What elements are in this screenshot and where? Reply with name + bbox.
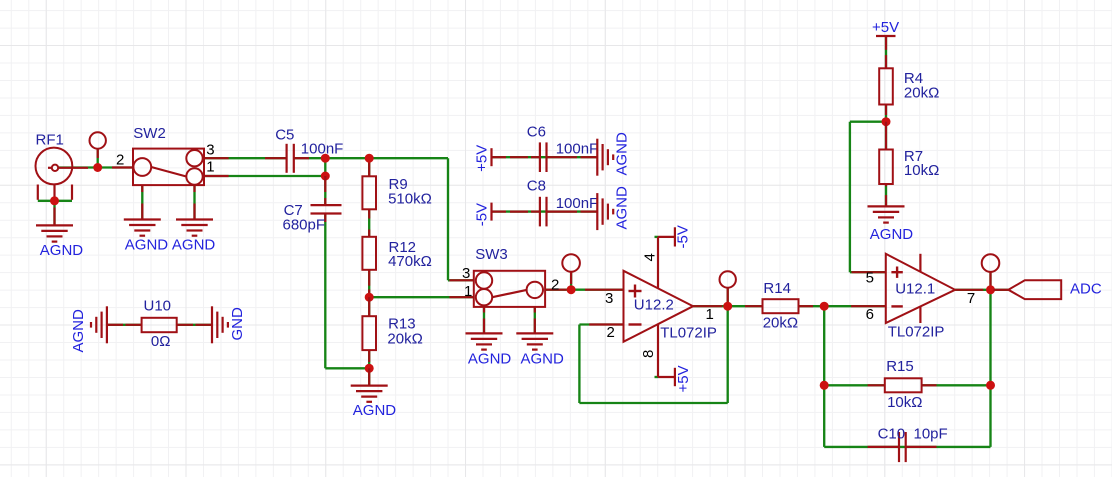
ground AGND at C8 (rotated): [597, 193, 613, 230]
wire node to C7 top: [324, 176, 326, 205]
wire port stub above node at RF1 input: [97, 149, 99, 168]
ground AGND at U10 left (rotated): [91, 306, 107, 343]
label AGND at U10 left: [70, 309, 87, 353]
pin number 1 of U12.2: [706, 306, 714, 323]
ground AGND at SW3 right: [516, 333, 553, 349]
svg-text:5: 5: [866, 269, 874, 286]
label AGND at SW3 right: [521, 351, 565, 368]
wire node to R13 top: [368, 297, 370, 316]
value 510k of R9: [388, 191, 432, 208]
switch SW3: [449, 271, 566, 334]
wire port stub at SW3 output node: [570, 272, 572, 290]
wire feedback loop U12.2 output to pin 2: [579, 306, 727, 403]
wire divider node to SW3 pin 1: [369, 296, 474, 298]
port circle at SW3 output node: [562, 254, 580, 284]
svg-text:C5: C5: [275, 126, 294, 143]
pin number 2 of U12.2: [607, 324, 615, 341]
wire port stub at output node: [989, 272, 991, 289]
node RF1 input junction: [93, 163, 102, 172]
value 470k of R12: [388, 253, 432, 270]
svg-text:+5V: +5V: [872, 19, 899, 36]
wire U12.1 output to ADC port: [955, 289, 1008, 291]
svg-text:-5V: -5V: [675, 225, 692, 248]
wire +5V to R4: [885, 36, 887, 69]
svg-text:C10: C10: [878, 425, 906, 442]
ground AGND at RF1: [36, 208, 73, 242]
label AGND at C8: [614, 186, 631, 230]
wire SW2 pin 4 to AGND: [141, 185, 143, 219]
label R15: [886, 358, 914, 375]
wire U12.2 pin 2 feedback: [579, 323, 623, 325]
label AGND at R13: [353, 402, 397, 419]
port circle at RF1 input node: [90, 132, 106, 158]
pin number 5 of U12.1: [866, 269, 874, 286]
value 100nF of C5: [301, 140, 344, 157]
op-amp U12.2: [585, 237, 693, 377]
port circle at U12.1 output node: [982, 254, 1000, 286]
pin number 6 of U12.1: [866, 306, 874, 323]
wire AGND to U10: [107, 324, 142, 326]
label AGND at SW2 pin 5: [172, 236, 216, 253]
ground AGND at R7: [868, 206, 905, 222]
wire U10 to GND: [177, 324, 212, 326]
svg-text:C6: C6: [527, 123, 546, 140]
wire tick at pin 4 rail: [655, 236, 659, 238]
label C8: [527, 178, 546, 195]
label R13: [388, 316, 416, 333]
value 20k of R4: [904, 84, 939, 101]
capacitor C5: [265, 144, 309, 173]
svg-text:510kΩ: 510kΩ: [388, 191, 432, 208]
resistor R4: [879, 55, 893, 115]
wire port stub at U12.2 output node: [727, 288, 729, 307]
wire C10 feedback loop: [824, 385, 990, 447]
svg-text:2: 2: [116, 151, 124, 168]
wire divider node to U12.1 pin 5: [850, 122, 886, 273]
resistor R9: [362, 158, 376, 237]
wire -5V to C8 to AGND: [491, 210, 597, 212]
wire tick at pin 8 rail: [655, 376, 659, 378]
port ADC: [994, 280, 1062, 299]
pin number 2 of SW2: [116, 151, 124, 168]
wire U12.2 output to R14: [693, 305, 762, 307]
label +5V at C6: [473, 145, 490, 172]
node feedback left: [820, 381, 829, 390]
svg-text:10kΩ: 10kΩ: [887, 394, 922, 411]
pin number 3 of U12.2: [605, 290, 613, 307]
label C5: [275, 126, 294, 143]
label SW2: [133, 125, 166, 142]
wire RF1 to SW2 pin 2: [58, 166, 133, 168]
node feedback right: [986, 381, 995, 390]
wire output node down to feedback: [989, 290, 991, 386]
svg-text:-5V: -5V: [473, 203, 490, 226]
label C10: [878, 425, 906, 442]
svg-text:470kΩ: 470kΩ: [388, 253, 432, 270]
svg-text:6: 6: [866, 306, 874, 323]
svg-text:3: 3: [462, 265, 470, 282]
wire +5V to C6 to AGND: [491, 156, 597, 158]
svg-text:3: 3: [206, 141, 214, 158]
value 20k of R14: [763, 315, 798, 332]
label AGND at SW3 left: [468, 351, 512, 368]
svg-text:4: 4: [641, 253, 658, 261]
svg-text:C8: C8: [527, 178, 546, 195]
svg-text:0Ω: 0Ω: [151, 333, 171, 350]
label C6: [527, 123, 546, 140]
svg-text:AGND: AGND: [70, 309, 87, 353]
wire R9 bottom to R12 top: [368, 209, 370, 237]
pin number 2 of SW3: [551, 276, 559, 293]
label AGND at RF1: [40, 242, 84, 259]
value 100nF of C8: [556, 195, 599, 212]
label SW3: [475, 246, 508, 263]
pin number 1 of SW3: [464, 283, 472, 300]
svg-text:2: 2: [607, 324, 615, 341]
capacitor C8: [510, 197, 597, 227]
node U12.1 output junction: [986, 285, 995, 294]
wire C5 to node and riser to SW3 pin 3: [294, 158, 473, 280]
port circle at U12.2 output node: [720, 271, 736, 302]
wire R7 to AGND: [885, 184, 887, 206]
label -5V at U12.2 pin 4: [675, 225, 692, 248]
value 10pF of C10: [914, 425, 948, 442]
svg-text:20kΩ: 20kΩ: [387, 331, 422, 348]
node SW3 output junction: [567, 285, 576, 294]
label GND at U10 right: [229, 307, 246, 341]
svg-text:680pF: 680pF: [283, 216, 326, 233]
node U12.2 output junction: [723, 302, 732, 311]
svg-text:SW2: SW2: [133, 125, 166, 142]
value 20k of R13: [387, 331, 422, 348]
wire SW2 pin 3 to C5: [204, 157, 286, 159]
pin number 7 of U12.1: [967, 290, 975, 307]
pin number 1 of SW2: [206, 158, 214, 175]
svg-text:AGND: AGND: [353, 402, 397, 419]
svg-text:7: 7: [967, 290, 975, 307]
svg-text:RF1: RF1: [36, 131, 64, 148]
wire SW3 to AGND left: [483, 307, 485, 334]
wire R15 to output node: [922, 384, 991, 386]
svg-text:GND: GND: [229, 307, 246, 341]
value 680pF of C7: [283, 216, 326, 233]
resistor R15: [868, 378, 937, 392]
label AGND at SW2 pin 4: [125, 236, 169, 253]
capacitor C10: [868, 432, 937, 462]
node at R13 bottom: [365, 364, 374, 373]
svg-text:R14: R14: [763, 280, 791, 297]
label TL072IP of U12.2: [660, 324, 717, 341]
wire R13 bottom to node: [368, 350, 370, 368]
wire RF1 shield node down to AGND: [53, 201, 55, 226]
svg-text:AGND: AGND: [870, 226, 914, 243]
svg-text:10pF: 10pF: [914, 425, 948, 442]
wire U12.2 output pin stub: [693, 305, 722, 307]
wire node down to feedback network: [823, 306, 825, 385]
label AGND at C6: [614, 132, 631, 176]
label +5V at U12.2 pin 8: [675, 365, 692, 392]
power flag -5V at C8: [492, 203, 507, 221]
label R14: [763, 280, 791, 297]
ground GND at U10 right (rotated): [212, 306, 228, 343]
power flag +5V at C6: [492, 148, 507, 166]
wire SW3 pin 2 to U12.2 pin 3: [545, 289, 623, 291]
wire node to R9 top: [368, 158, 370, 176]
pin number 3 of SW3: [462, 265, 470, 282]
label R4: [904, 70, 923, 87]
node RF1 shield junction: [50, 196, 59, 205]
svg-text:AGND: AGND: [521, 351, 565, 368]
wire RF1 shield to ground: [38, 200, 72, 202]
ground AGND at C6 (rotated): [597, 139, 613, 176]
label R9: [389, 176, 408, 193]
wire between nodes at C5 output: [324, 158, 326, 176]
resistor U10 (0 ohm link): [107, 318, 212, 332]
wire SW2 pin 1 to node below C5: [204, 175, 325, 177]
resistor R12: [362, 237, 376, 297]
capacitor C7: [311, 176, 342, 222]
connector RF1 (BNC): [36, 148, 89, 201]
ground AGND at SW2 pin 4: [124, 220, 161, 236]
wire R4 to node: [885, 104, 887, 122]
svg-text:U10: U10: [144, 298, 172, 315]
ground AGND at SW3 left: [466, 333, 503, 349]
label AGND at R7: [870, 226, 914, 243]
svg-text:R15: R15: [886, 358, 914, 375]
svg-text:1: 1: [206, 158, 214, 175]
svg-text:+5V: +5V: [473, 145, 490, 172]
pin number 3 of SW2: [206, 141, 214, 158]
label U12.2: [634, 297, 674, 314]
node between R4 and R7: [882, 117, 891, 126]
ground AGND at SW2 pin 5: [176, 220, 213, 236]
svg-text:1: 1: [706, 306, 714, 323]
switch SW2: [112, 149, 229, 220]
capacitor C6: [510, 142, 597, 172]
power flag +5V at U12.2 pin 8: [658, 368, 675, 386]
label R7: [904, 148, 923, 165]
svg-text:AGND: AGND: [614, 186, 631, 230]
svg-text:100nF: 100nF: [556, 195, 599, 212]
value 10k of R15: [887, 394, 922, 411]
svg-text:1: 1: [464, 283, 472, 300]
resistor R7: [879, 122, 893, 207]
label ADC: [1070, 281, 1102, 298]
resistor R14: [745, 299, 813, 313]
svg-text:U12.1: U12.1: [895, 281, 935, 298]
wire node to R7: [885, 122, 887, 150]
svg-text:TL072IP: TL072IP: [888, 323, 945, 340]
wire U12.1 output pin stub: [955, 289, 983, 291]
resistor R13: [362, 297, 376, 362]
label -5V at C8: [473, 203, 490, 226]
label U12.1: [895, 281, 935, 298]
wire SW3 to AGND right: [534, 307, 536, 334]
value 10k of R7: [904, 162, 939, 179]
value 100nF of C6: [556, 140, 599, 157]
ground AGND at R13: [351, 368, 388, 402]
svg-text:3: 3: [605, 290, 613, 307]
svg-text:2: 2: [551, 276, 559, 293]
node after R14: [820, 302, 829, 311]
label +5V at R4: [872, 19, 899, 36]
power flag +5V at R4: [876, 36, 896, 50]
node at C5 output upper: [321, 154, 330, 163]
pin number 8 of U12.2: [640, 350, 657, 358]
svg-text:TL072IP: TL072IP: [660, 324, 717, 341]
svg-text:100nF: 100nF: [556, 140, 599, 157]
svg-text:U12.2: U12.2: [634, 297, 674, 314]
svg-text:AGND: AGND: [468, 351, 512, 368]
svg-text:AGND: AGND: [125, 236, 169, 253]
node at R9 top: [365, 154, 374, 163]
wire node to AGND: [368, 368, 370, 385]
svg-text:AGND: AGND: [614, 132, 631, 176]
wire R14 to U12.1 pin 6: [799, 305, 886, 307]
svg-text:+5V: +5V: [675, 365, 692, 392]
svg-text:20kΩ: 20kΩ: [904, 84, 939, 101]
svg-text:10kΩ: 10kΩ: [904, 162, 939, 179]
wire R12 bottom to node: [368, 270, 370, 297]
value 0 ohm of U10: [151, 333, 171, 350]
label C7: [284, 202, 303, 219]
op-amp U12.1: [851, 254, 955, 323]
wire C7 bottom to R13 bottom node: [325, 214, 369, 369]
svg-text:AGND: AGND: [40, 242, 84, 259]
svg-text:100nF: 100nF: [301, 140, 344, 157]
svg-text:8: 8: [640, 350, 657, 358]
label TL072IP of U12.1: [888, 323, 945, 340]
label R12: [389, 239, 417, 256]
node at C5 output lower: [321, 172, 330, 181]
wire node to R15: [824, 384, 885, 386]
node between R12 and R13: [365, 293, 374, 302]
wire SW2 pin 5 to AGND: [193, 185, 195, 219]
label RF1: [36, 131, 64, 148]
svg-text:ADC: ADC: [1070, 281, 1102, 298]
svg-text:AGND: AGND: [172, 236, 216, 253]
svg-text:SW3: SW3: [475, 246, 508, 263]
pin number 4 of U12.2: [641, 253, 658, 261]
power flag -5V at U12.2 pin 4: [658, 227, 675, 246]
svg-text:20kΩ: 20kΩ: [763, 315, 798, 332]
label U10: [144, 298, 172, 315]
